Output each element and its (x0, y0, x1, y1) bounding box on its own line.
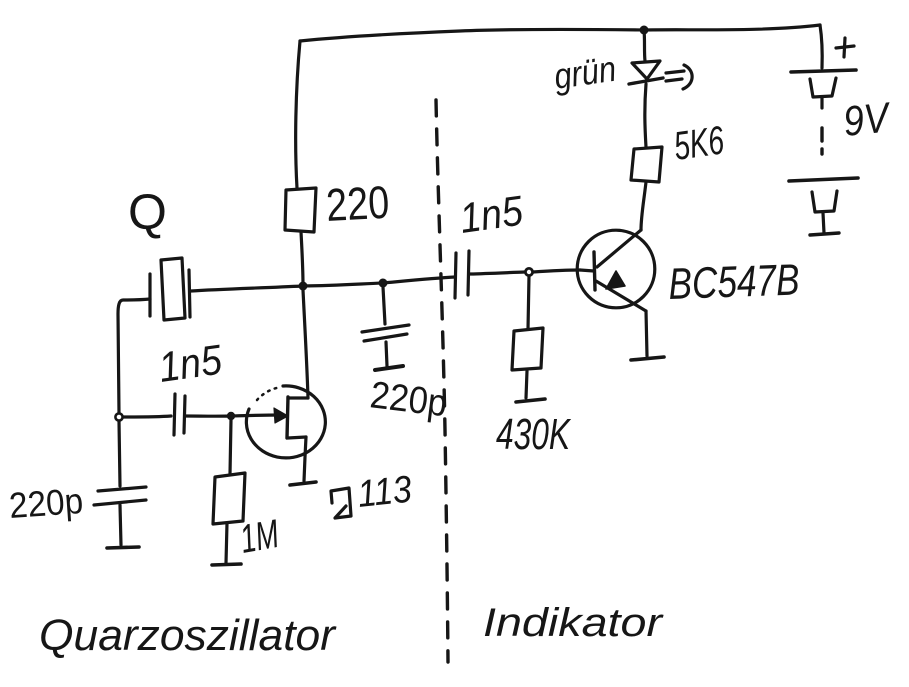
transistor J113 gate arrow (274, 408, 288, 423)
wire crystal to junction (191, 286, 303, 291)
battery 9V top plate (791, 70, 856, 72)
svg-text:BC547B: BC547B (668, 255, 801, 309)
wire top junction to LED (644, 30, 645, 61)
wire junction mid to capacitor 1n5 indicator (383, 277, 455, 283)
svg-text:220p: 220p (368, 374, 450, 425)
wire node A to capacitor 220p left (119, 421, 120, 486)
wire junction base to resistor 430K (528, 276, 529, 329)
label 1M (237, 512, 283, 562)
transistor J113 internals (287, 397, 308, 438)
label J113 (331, 469, 414, 518)
wire BC547B collector to resistor 5K6 (641, 182, 646, 230)
wire JFET source to ground (304, 437, 306, 481)
label 5K6 (671, 118, 727, 169)
wire top rail down to resistor 220 (296, 41, 300, 188)
battery 9V bottom plate (789, 178, 858, 181)
ground 220p left (107, 547, 139, 548)
node junction main row left (299, 282, 308, 291)
svg-text:1M: 1M (237, 512, 283, 562)
wire node A to capacitor 1n5 gate (123, 416, 171, 417)
svg-text:9V: 9V (841, 93, 894, 145)
svg-text:Indikator: Indikator (483, 601, 664, 645)
transistor BC547B internals (580, 230, 646, 311)
wire JFET drain to junction main row (303, 290, 308, 398)
LED light arrow (666, 65, 692, 89)
label Indikator (483, 601, 664, 645)
ground 430K (516, 399, 545, 402)
svg-text:220p: 220p (8, 480, 85, 526)
wire top rail (300, 25, 820, 41)
ground BC547B emitter (631, 357, 664, 360)
label 1n5 oscillator (156, 336, 225, 391)
battery 9V dashes (820, 128, 823, 154)
wire BC547B emitter to ground (646, 311, 647, 356)
battery 9V bottom snap (810, 191, 839, 235)
ground 1M (212, 564, 241, 565)
label 220p mid (368, 374, 450, 425)
label 430K (496, 410, 571, 459)
resistor 1M (213, 473, 245, 524)
wire crystal left to node A (118, 299, 150, 413)
label gruen (551, 48, 618, 97)
label 220 (325, 176, 391, 231)
label 9V (841, 93, 894, 145)
transistor J113 body (246, 386, 325, 458)
wire capacitor 1n5 to junction gate (186, 414, 230, 417)
label 220p left (8, 480, 85, 526)
label BC547B (668, 255, 801, 309)
wire top rail to battery plus (820, 25, 822, 68)
divider dashed line (436, 100, 448, 662)
battery 9V top snap (810, 78, 836, 108)
svg-text:Quarzoszillator: Quarzoszillator (39, 611, 337, 660)
battery 9V plus sign (836, 38, 854, 57)
wire junction mid to capacitor 220p mid (383, 287, 385, 324)
node junction gate (227, 412, 235, 420)
resistor 220 (285, 188, 316, 232)
wire resistor 5K6 to LED (645, 84, 646, 147)
resistor 430K (512, 328, 543, 370)
svg-text:430K: 430K (496, 410, 571, 459)
wire capacitor 220p mid to ground (386, 342, 387, 366)
capacitor 220p left (94, 487, 146, 505)
svg-text:5K6: 5K6 (671, 118, 727, 169)
wire junction gate to JFET gate (231, 415, 281, 416)
label Q (128, 184, 167, 240)
ground J113 source (290, 482, 316, 485)
resistor 5K6 (631, 147, 662, 182)
node top junction (640, 26, 649, 35)
capacitor 1n5 indicator (455, 251, 469, 298)
wire junction to junction mid (303, 283, 383, 286)
crystal Q (150, 258, 190, 320)
transistor BC547B emitter arrow (606, 271, 625, 289)
label 1n5 indicator (457, 187, 526, 242)
wire capacitor 1n5 indicator to junction base (470, 272, 525, 274)
LED gruen (629, 61, 663, 84)
node A open (115, 413, 122, 420)
node junction main row mid (379, 279, 388, 288)
wire resistor 430K to ground (526, 371, 527, 398)
capacitor 220p mid (362, 325, 409, 341)
wire junction gate to resistor 1M (230, 420, 231, 474)
label Quarzoszillator (39, 611, 337, 660)
wire capacitor 220p left to ground (120, 505, 121, 545)
svg-text:1n5: 1n5 (457, 187, 526, 242)
svg-text:113: 113 (356, 469, 414, 516)
wire resistor 220 to main row (301, 232, 303, 286)
svg-text:grün: grün (551, 48, 618, 97)
capacitor 1n5 oscillator (174, 394, 185, 435)
transistor BC547B body (577, 230, 655, 308)
wire resistor 1M to ground (226, 523, 227, 563)
node junction base open (525, 268, 532, 275)
wire junction base to transistor BC547B (533, 270, 580, 272)
ground 220p mid (375, 366, 403, 370)
svg-text:1n5: 1n5 (156, 336, 225, 391)
svg-text:220: 220 (325, 176, 391, 231)
svg-text:Q: Q (128, 184, 167, 240)
